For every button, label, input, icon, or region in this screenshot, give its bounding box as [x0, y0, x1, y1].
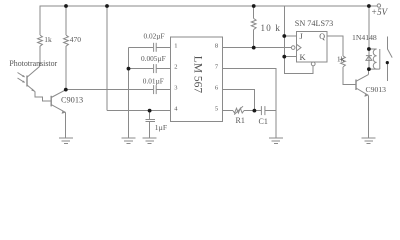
svg-text:1k: 1k: [44, 35, 52, 44]
capacitor 1uF: [145, 111, 155, 138]
clear bubble: [311, 62, 315, 66]
node dot collector Q1: [64, 88, 68, 92]
flip-flop U2 SN74LS73 box: [296, 32, 327, 63]
svg-text:C1: C1: [259, 117, 268, 126]
svg-text:+5V: +5V: [371, 7, 389, 17]
wire 470 vertical lower: [65, 46, 67, 89]
svg-text:7: 7: [215, 64, 219, 71]
capacitor C1: [261, 106, 276, 115]
wire 1k left vertical upper: [39, 6, 41, 35]
ground Q1 emitter: [59, 138, 73, 143]
relay coil K1: [369, 49, 380, 69]
wire pin7 ground run: [223, 69, 276, 138]
+5V terminal circle: [377, 4, 380, 7]
wire top +5V rail: [40, 5, 378, 7]
svg-text:SN 74LS73: SN 74LS73: [295, 19, 333, 28]
svg-text:C9013: C9013: [61, 96, 83, 105]
node dot rail-relay: [367, 4, 371, 8]
wire Vcc vertical x107: [106, 6, 108, 111]
ground pin7: [269, 138, 283, 143]
node dot diode top: [367, 47, 371, 51]
svg-text:K: K: [300, 52, 307, 62]
svg-text:0.005µF: 0.005µF: [141, 54, 166, 63]
svg-text:5: 5: [215, 106, 218, 113]
transistor Q1 C9013: [51, 90, 65, 138]
wire pin6 run: [223, 90, 255, 111]
svg-text:10 k: 10 k: [261, 23, 282, 33]
ground Q2 emitter: [362, 138, 376, 143]
node dot rail-10k: [252, 4, 256, 8]
wire JK bus from rail: [283, 6, 285, 57]
node dot 1uF pin4: [148, 109, 152, 113]
wire R1 to C1: [244, 110, 261, 112]
svg-text:1N4148: 1N4148: [352, 33, 377, 42]
node dot rail-x107: [105, 4, 109, 8]
resistor 10k: [251, 6, 256, 48]
svg-text:3: 3: [174, 85, 177, 92]
clock bubble: [291, 46, 295, 50]
node dot bus-0.005uF: [127, 67, 131, 71]
capacitor 0.02uF: [129, 43, 171, 52]
wire Q output: [327, 36, 343, 56]
wire K input: [284, 56, 296, 58]
wire pin5 lead: [223, 110, 233, 112]
diode D1 1N4148: [366, 56, 372, 61]
phototransistor PT1: [27, 46, 40, 92]
svg-text:0.02µF: 0.02µF: [144, 32, 165, 41]
relay contact switch: [387, 36, 392, 81]
wire pin4 Vcc row: [107, 110, 171, 112]
svg-text:1µF: 1µF: [155, 123, 167, 132]
ground 1uF: [143, 138, 157, 143]
svg-text:8: 8: [215, 42, 218, 49]
wire 1k left vertical lower: [39, 46, 41, 66]
capacitor 0.005uF: [129, 64, 171, 73]
ground caps bus: [122, 138, 136, 143]
svg-text:R1: R1: [236, 116, 245, 125]
wire 1k to Q2 base: [343, 67, 355, 85]
svg-text:1: 1: [174, 42, 177, 49]
wire 470 vertical upper: [65, 6, 67, 35]
node dot J input: [282, 34, 286, 38]
svg-text:470: 470: [70, 35, 82, 44]
wire caps bus: [128, 47, 130, 138]
node dot rail-470: [64, 4, 68, 8]
light arrow 1: [18, 73, 26, 78]
svg-text:6: 6: [215, 85, 219, 92]
svg-text:0.01µF: 0.01µF: [143, 76, 164, 85]
node dot diode bottom: [367, 67, 371, 71]
node dot 10k-pin8: [252, 46, 256, 50]
svg-text:LM 567: LM 567: [191, 56, 203, 94]
svg-text:C9013: C9013: [366, 85, 387, 94]
resistor 470: [64, 35, 69, 46]
wire relay branch vertical: [368, 6, 370, 69]
wire J input: [284, 35, 296, 37]
node dot switch pivot: [386, 61, 389, 64]
svg-text:Q: Q: [319, 32, 325, 41]
capacitor 0.01uF: [66, 85, 171, 94]
wire pin8 row: [223, 47, 292, 49]
resistor R1: [233, 106, 244, 114]
transistor Q2 C9013: [356, 69, 368, 138]
svg-text:J: J: [300, 31, 304, 41]
clock triangle: [296, 44, 301, 51]
op-amp U1 LM567 box: [171, 37, 223, 121]
node dot K input: [282, 55, 286, 59]
node dot R1-C1-pin6: [253, 109, 257, 113]
svg-text:2: 2: [174, 64, 177, 71]
resistor 1k (right): [341, 56, 346, 67]
resistor 1k (left): [38, 35, 43, 46]
svg-text:Phototransistor: Phototransistor: [9, 59, 57, 68]
light arrow 2: [18, 78, 26, 83]
svg-text:1k: 1k: [337, 55, 345, 64]
wire clear loop: [285, 57, 314, 74]
wire phototransistor emitter to Q1 base: [35, 92, 51, 101]
svg-text:4: 4: [174, 106, 178, 113]
